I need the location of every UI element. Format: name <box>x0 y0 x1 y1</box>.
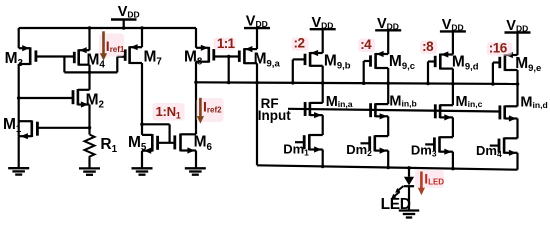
svg-text:1:1: 1:1 <box>217 36 236 51</box>
svg-text::8: :8 <box>422 39 434 54</box>
svg-text::4: :4 <box>360 37 372 52</box>
svg-text:Input: Input <box>258 108 291 123</box>
svg-text::16: :16 <box>489 41 508 56</box>
svg-text::2: :2 <box>294 36 305 51</box>
svg-text:LED: LED <box>381 196 411 213</box>
